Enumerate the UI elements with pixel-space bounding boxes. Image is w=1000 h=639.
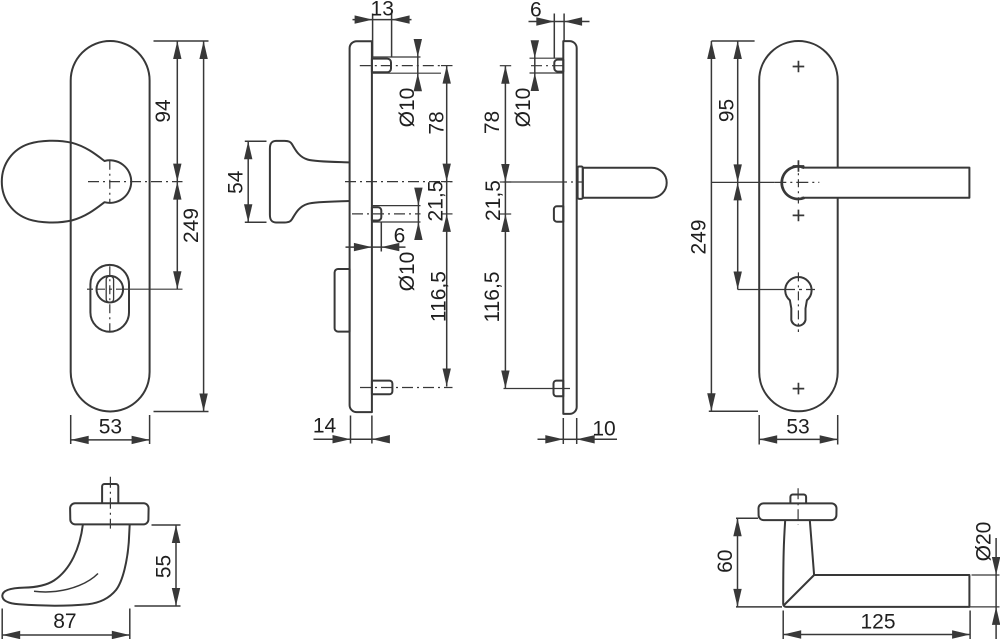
dim extension line at P1 top xyxy=(154,40,209,42)
dia10 arrow tail bottom (P2) xyxy=(534,73,536,90)
arrow dim 94 at knob centre xyxy=(173,164,181,182)
arrow 60 bottom xyxy=(733,589,741,607)
tick at plate centre (P2) xyxy=(500,181,511,183)
knob horn inner crease xyxy=(34,574,98,592)
svg-text:Ø10: Ø10 xyxy=(512,88,535,128)
cylinder keyway slot on P1 xyxy=(106,276,113,302)
lever top view centreline xyxy=(797,488,799,524)
plate centreline side view P1 xyxy=(345,181,453,183)
chain dim line 78-21.5-116.5 (P2 side) xyxy=(504,66,506,389)
dim 6 extension left (P2) xyxy=(553,14,555,59)
dia20 arrow bottom xyxy=(992,607,1000,625)
screw mark bottom (P2) xyxy=(793,383,805,395)
nub dia10 extension top xyxy=(372,205,421,207)
dia20 arrow tail top xyxy=(995,538,997,575)
dim 10 middle segment xyxy=(563,438,576,440)
arrow 78 bottom (P2) xyxy=(501,164,509,182)
profile cylinder keyhole on P2 xyxy=(785,277,811,326)
svg-text:116,5: 116,5 xyxy=(428,271,451,322)
dim line 60 xyxy=(737,518,739,607)
arrow dim 249 bottom xyxy=(199,394,207,412)
cylinder housing box on P1 side view xyxy=(335,269,350,332)
svg-text:55: 55 xyxy=(153,555,176,578)
plate P2 (lever backplate) side view xyxy=(563,41,576,414)
dim line 53 (P1) xyxy=(71,439,150,441)
arrow dim 249 top xyxy=(199,41,207,59)
dim line 249 xyxy=(203,41,205,412)
dim 13 tail right xyxy=(392,19,412,21)
arrow 54 bottom xyxy=(244,204,252,222)
dim 6 middle segment (P1 side) xyxy=(372,246,381,248)
cylinder centreline extension to dimension line xyxy=(124,288,183,290)
cylinder escutcheon oval on P1 xyxy=(90,265,129,332)
arrow chain at cylinder centre xyxy=(173,271,181,289)
handle horizontal centreline (P2 front) xyxy=(774,181,819,183)
dim 10 extension right (P2) xyxy=(576,418,578,444)
svg-text:78: 78 xyxy=(426,111,449,134)
arrow 78 bottom xyxy=(443,164,451,182)
arrow dim 53 left (P2) xyxy=(759,435,777,443)
spindle nub on P2 side view xyxy=(554,206,563,221)
knob spindle stem, top view xyxy=(102,484,118,503)
dia10 nub middle segment xyxy=(417,206,419,222)
upper screw boss on P1 side view xyxy=(372,59,391,73)
dim 13 arrow left xyxy=(355,15,373,23)
dim extension line at P1 bottom xyxy=(154,411,209,413)
lower boss centreline xyxy=(360,387,453,389)
svg-text:Ø10: Ø10 xyxy=(396,252,419,292)
arrow chain below knob centre xyxy=(173,182,181,200)
svg-text:60: 60 xyxy=(714,550,737,573)
upper nub dia10 extension top (P2) xyxy=(530,57,564,59)
dia20 arrow top xyxy=(992,557,1000,575)
dim 6 tail right xyxy=(381,246,405,248)
dim 6 middle segment (P2) xyxy=(554,21,564,23)
dim line 249 (P2) xyxy=(710,41,712,411)
cylinder core circle on P1 xyxy=(97,276,124,303)
dim 10 tail left xyxy=(538,438,564,440)
plate P1 side view xyxy=(350,41,372,412)
dia10 upper arrow bottom xyxy=(414,73,422,91)
lever handle collar arc, front view xyxy=(782,166,805,199)
dim line 53 (P2) xyxy=(759,438,838,440)
chain dim line 78-21.5-116.5 (P1 side) xyxy=(446,66,448,387)
lower nub centreline extension (P2) xyxy=(504,388,571,390)
arrow dim 94 top xyxy=(173,41,181,59)
svg-text:6: 6 xyxy=(394,225,406,248)
dim 10 extension left (P2) xyxy=(562,418,564,444)
knob top view centreline xyxy=(109,477,111,529)
svg-text:53: 53 xyxy=(786,416,809,439)
svg-text:14: 14 xyxy=(313,415,337,438)
tick at nub centre xyxy=(441,213,453,215)
lever neck and grip outline, top view xyxy=(783,520,969,607)
arrow dim 249 top (P2) xyxy=(707,41,715,59)
lever rose cap, top view xyxy=(759,503,837,520)
dim 6 arrow right (P2) xyxy=(564,17,582,25)
lever handle grip, front view xyxy=(802,168,970,198)
svg-text:249: 249 xyxy=(180,208,203,243)
arrow chain below handle centre xyxy=(734,182,742,200)
svg-text:21,5: 21,5 xyxy=(482,180,505,221)
dim 6 extension right (P2) xyxy=(563,14,565,41)
upper nub dia10 extension bottom (P2) xyxy=(530,72,564,74)
screw mark below handle (P2) xyxy=(793,210,805,222)
upper boss dia10 extension bottom xyxy=(372,72,441,74)
dia10 nub arrow bottom xyxy=(414,222,422,240)
arrow dim 53 right (P1) xyxy=(132,436,150,444)
svg-text:125: 125 xyxy=(860,611,895,634)
dim 10 tail right xyxy=(577,438,617,440)
nub dia10 extension bottom xyxy=(372,221,421,223)
dim 87 extension right xyxy=(129,609,131,639)
tick at boss centre xyxy=(441,65,453,67)
dia10 arrow top (P2) xyxy=(531,40,539,58)
dim 10 arrow right xyxy=(577,435,595,443)
arrow dim 53 right (P2) xyxy=(820,435,838,443)
spindle nub centreline xyxy=(352,213,421,215)
tick at upper nub centre (P2) xyxy=(500,65,511,67)
dia20 middle segment xyxy=(995,575,997,607)
arrow 87 right xyxy=(112,631,130,639)
svg-text:53: 53 xyxy=(99,416,122,439)
dia10 upper arrow tail top xyxy=(417,42,419,58)
knob grip horn, top view xyxy=(2,524,129,605)
dim 6 arrow left xyxy=(354,243,372,251)
handle centre extension line (P2) xyxy=(711,181,774,183)
arrow 116,5 bottom (P2) xyxy=(501,371,509,389)
arrow dim 95 at handle centre xyxy=(734,164,742,182)
dim 10 arrow left xyxy=(545,435,563,443)
dim 55 extension bottom xyxy=(135,605,181,607)
dia10 nub arrow tail top xyxy=(417,190,419,206)
dim line 95 / chain (P2) xyxy=(737,41,739,290)
dia20 extension top xyxy=(972,574,1000,576)
svg-text:Ø20: Ø20 xyxy=(973,522,996,562)
dim 13 middle segment xyxy=(373,19,392,21)
dia10 upper arrow top xyxy=(414,39,422,57)
dim 60 extension top xyxy=(736,517,758,519)
upper screw nub on P2 side view xyxy=(554,60,563,72)
arrow 60 top xyxy=(733,518,741,536)
dia10 upper arrow tail bottom xyxy=(417,73,419,90)
dia20 extension bottom xyxy=(969,606,999,608)
dim 55 extension top xyxy=(152,524,181,526)
svg-text:21,5: 21,5 xyxy=(425,181,448,222)
dim 60 extension bottom xyxy=(736,606,782,608)
arrow 78 top xyxy=(443,66,451,84)
dim 53 extension left (P2) xyxy=(758,415,760,445)
screw mark above handle (P2) xyxy=(793,160,805,172)
cylinder vertical centreline (P2) xyxy=(797,272,799,332)
dia10 middle segment (P2) xyxy=(534,58,536,73)
svg-text:94: 94 xyxy=(152,99,175,123)
dia10 upper middle segment xyxy=(417,57,419,73)
dim 6 tail right (P2) xyxy=(564,21,589,23)
arrow 78 top (P2) xyxy=(501,66,509,84)
arrow dim 249 bottom (P2) xyxy=(707,393,715,411)
upper boss centreline xyxy=(360,65,440,67)
lower screw boss on P1 side view xyxy=(372,381,393,395)
dim 53 extension left (P1) xyxy=(70,415,72,444)
cylinder centreline dashes (P1) xyxy=(96,288,124,290)
dim 54 extension top xyxy=(245,140,267,142)
svg-text:87: 87 xyxy=(53,610,76,633)
tick at plate centre xyxy=(441,181,453,183)
tick at spindle nub centre (P2) xyxy=(500,213,511,215)
dim 13 extension left xyxy=(372,14,374,58)
dim 13 extension right xyxy=(391,14,393,58)
svg-text:10: 10 xyxy=(592,418,615,441)
arrow 87 left xyxy=(2,631,20,639)
arrow 125 left xyxy=(783,630,801,638)
svg-text:95: 95 xyxy=(716,99,739,122)
dia10 nub arrow top xyxy=(414,188,422,206)
dim 6 tail left (P2) xyxy=(529,21,555,23)
dim 14 arrow left xyxy=(333,435,351,443)
arrow dim 53 left (P1) xyxy=(71,436,89,444)
cylinder centreline extension (P2) xyxy=(738,289,786,291)
dim 6 arrow right xyxy=(381,243,399,251)
dim line 54 xyxy=(247,141,249,222)
dim 6 arrow left (P2) xyxy=(536,17,554,25)
dim line 55 xyxy=(175,525,177,606)
arrow 116,5 top (P2) xyxy=(501,214,509,232)
dia10 arrow bottom (P2) xyxy=(531,73,539,91)
arrow 116,5 bottom xyxy=(443,369,451,387)
dim 14 extension right xyxy=(371,416,373,444)
svg-text:13: 13 xyxy=(371,0,394,20)
dim 13 arrow right xyxy=(392,15,410,23)
dim 53 extension right (P2) xyxy=(837,415,839,445)
svg-text:54: 54 xyxy=(225,170,248,194)
svg-text:78: 78 xyxy=(481,111,504,134)
dim line 87 xyxy=(2,634,130,636)
dia20 arrow tail bottom xyxy=(995,607,997,639)
svg-text:116,5: 116,5 xyxy=(481,272,504,323)
handle vertical centreline (P2 front) xyxy=(797,161,799,203)
arrow 54 top xyxy=(244,141,252,159)
dim 125 extension left xyxy=(782,611,784,639)
lever handle collar, side view xyxy=(578,167,583,199)
arrow 116,5 top xyxy=(443,214,451,232)
arrow 55 top xyxy=(172,525,180,543)
upper nub centreline (P2) xyxy=(531,65,566,67)
svg-text:6: 6 xyxy=(530,0,542,21)
dim 6 extension (nub edge) xyxy=(380,223,382,252)
dim extension line at P2 top xyxy=(711,40,754,42)
upper boss dia10 extension top xyxy=(372,56,421,58)
spindle nub on P1 side view xyxy=(372,207,381,220)
handle centreline dashes (P2) xyxy=(560,181,583,183)
dim 14 extension left xyxy=(350,416,352,444)
dim extension line at P2 bottom xyxy=(709,410,758,412)
dim 14 tail right xyxy=(372,438,387,440)
knob rose cap, top view xyxy=(70,503,149,524)
dim 14 arrow right xyxy=(372,435,390,443)
arrow chain at cylinder centre (P2) xyxy=(734,272,742,290)
arrow 125 right xyxy=(952,630,970,638)
dia10 nub arrow tail bottom xyxy=(417,222,419,238)
lever handle grip, side view xyxy=(583,168,667,198)
arrow dim 95 top xyxy=(734,41,742,59)
cylinder centreline dashes (P2) xyxy=(786,289,815,291)
dim 14 middle segment xyxy=(351,438,372,440)
knob K1 front view (cranked knob) xyxy=(2,141,131,223)
dim line 125 xyxy=(783,634,970,636)
dim 54 extension bottom xyxy=(245,221,267,223)
svg-text:249: 249 xyxy=(688,219,711,254)
plate centreline extension (P2) xyxy=(504,181,561,183)
cylinder centreline dashes left (P1) xyxy=(87,288,96,290)
dim 14 tail left xyxy=(314,438,351,440)
cylinder vertical centreline on P1 xyxy=(109,266,111,334)
dim 87 extension left xyxy=(1,609,3,639)
dim 125 extension right xyxy=(969,611,971,639)
arrow 55 bottom xyxy=(172,588,180,606)
svg-text:Ø10: Ø10 xyxy=(396,88,419,128)
screw mark top (P2) xyxy=(793,61,805,73)
lever spindle stem, top view xyxy=(790,495,806,504)
plate P1 (knob backplate, front view) xyxy=(71,41,150,411)
lower screw nub on P2 side view xyxy=(554,381,564,397)
lever neck miter crease xyxy=(784,575,815,606)
knob K1 horizontal centreline xyxy=(88,181,183,183)
knob K1 side profile xyxy=(270,141,350,223)
plate P2 (lever backplate, front view) xyxy=(759,41,838,411)
dim line 94 / chain (x=177) xyxy=(176,41,178,289)
dia10 arrow tail top (P2) xyxy=(534,43,536,59)
knob K1 vertical centreline xyxy=(109,161,111,203)
dim 13 tail left xyxy=(353,19,373,21)
dim 6 tail left xyxy=(346,246,372,248)
dim 53 extension right (P1) xyxy=(149,415,151,444)
